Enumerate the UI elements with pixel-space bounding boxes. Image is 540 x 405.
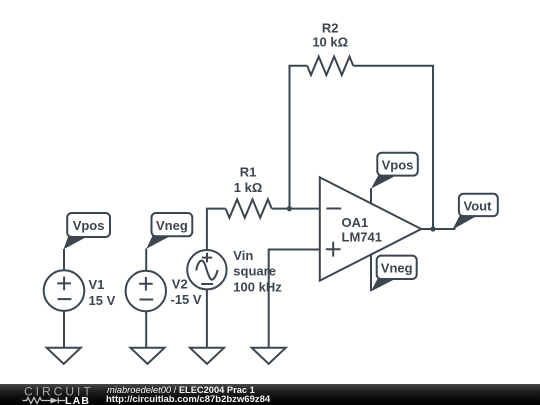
- wire op-amp negative supply pin to Vneg flag: [370, 254, 372, 291]
- svg-text:Vneg: Vneg: [381, 261, 413, 276]
- wire V1 bottom terminal to ground: [63, 311, 65, 348]
- svg-text:Vpos: Vpos: [73, 218, 105, 233]
- wire R1 right terminal to op-amp inverting input: [272, 208, 320, 210]
- svg-text:Vneg: Vneg: [156, 218, 188, 233]
- svg-text:V1: V1: [89, 277, 105, 292]
- wire feedback left vertical from junction up to R2 left terminal: [290, 66, 308, 209]
- ground: [252, 348, 286, 364]
- voltage source V1: [44, 270, 85, 311]
- svg-text:Vin: Vin: [233, 248, 253, 263]
- svg-text:LM741: LM741: [342, 230, 382, 245]
- label V2 -15 V: [171, 277, 202, 308]
- wire Vin top terminal to R1 left terminal: [207, 209, 226, 250]
- wire V2 top terminal to Vneg flag: [145, 249, 147, 271]
- node junction dot at output: [430, 226, 435, 231]
- node Vpos flag at op-amp supply: [371, 153, 418, 189]
- label Vin square 100 kHz: [233, 248, 282, 294]
- svg-text:15 V: 15 V: [89, 293, 116, 308]
- ground: [131, 348, 165, 364]
- label OA1 LM741: [342, 215, 382, 245]
- wire V2 bottom terminal to ground: [145, 311, 147, 348]
- svg-text:OA1: OA1: [342, 215, 369, 230]
- svg-text:Vpos: Vpos: [382, 157, 414, 172]
- node Vout flag: [452, 194, 497, 230]
- voltage source V2: [126, 271, 166, 311]
- svg-text:1 kΩ: 1 kΩ: [234, 180, 263, 195]
- svg-text:R1: R1: [240, 164, 257, 179]
- node Vpos flag at V1: [64, 213, 110, 249]
- wire op-amp output: [421, 228, 455, 230]
- ground: [47, 348, 81, 364]
- svg-text:100 kHz: 100 kHz: [233, 279, 282, 294]
- svg-text:LAB: LAB: [65, 395, 90, 405]
- svg-text:Vout: Vout: [464, 198, 493, 213]
- node junction dot at inverting input: [287, 206, 292, 211]
- wire op-amp positive supply pin to Vpos flag: [370, 188, 372, 203]
- voltage source Vin function generator: [187, 250, 226, 289]
- label V1 15 V: [89, 277, 116, 308]
- footer bar: [0, 384, 540, 405]
- svg-text:10 kΩ: 10 kΩ: [312, 35, 348, 50]
- CircuitLab logo: [22, 384, 102, 405]
- wire op-amp non-inverting input to ground: [269, 250, 320, 348]
- resistor R1: [226, 199, 272, 217]
- wire R2 right terminal to feedback right vertical down to output: [353, 66, 433, 229]
- op-amp OA1 LM741: [320, 177, 421, 280]
- svg-text:V2: V2: [172, 277, 188, 292]
- wire V1 top terminal to Vpos flag: [63, 249, 65, 270]
- resistor R2: [307, 57, 353, 75]
- ground: [190, 348, 224, 364]
- label R1 1 kOhm: [234, 164, 263, 195]
- node Vneg flag at op-amp supply: [371, 256, 417, 292]
- wire Vin bottom terminal to ground: [206, 289, 208, 347]
- label R2 10 kOhm: [312, 20, 348, 49]
- node Vneg flag at V2: [146, 213, 192, 249]
- svg-text:-15 V: -15 V: [171, 292, 202, 307]
- svg-text:R2: R2: [322, 20, 339, 35]
